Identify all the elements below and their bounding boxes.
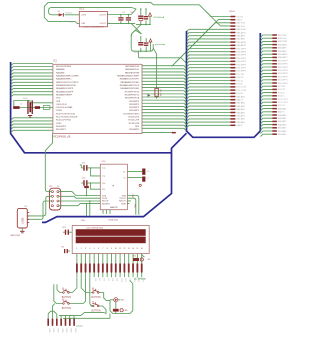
- bus A vertical: [11, 62, 172, 153]
- svg-text:12: 12: [123, 248, 125, 250]
- svg-text:RB5.PGM: RB5.PGM: [236, 29, 245, 31]
- wire bottom rail: [63, 317, 110, 319]
- svg-text:RD7.SPP7: RD7.SPP7: [236, 48, 247, 50]
- svg-text:RA3.AN3: RA3.AN3: [278, 114, 287, 117]
- switch S4: [91, 305, 92, 307]
- svg-text:T1OE: T1OE: [102, 198, 108, 200]
- LED part 2: [113, 309, 119, 312]
- svg-text:RA2.AN2: RA2.AN2: [236, 105, 245, 108]
- wire IC diag row3: [175, 23, 230, 63]
- DC/DC converter DC1: [79, 12, 107, 27]
- svg-text:RB3.AN9: RB3.AN9: [278, 47, 287, 50]
- wire inner U-turn: [49, 7, 52, 14]
- wire cluster B loop: [131, 31, 153, 52]
- svg-text:µC-Display: µC-Display: [134, 278, 147, 281]
- wire to pad row: [48, 311, 57, 318]
- svg-text:OSC2/CLKO/RA6: OSC2/CLKO/RA6: [56, 106, 73, 109]
- svg-text:RD0.SPP0: RD0.SPP0: [236, 71, 247, 73]
- svg-text:RD3.SPP3: RD3.SPP3: [278, 73, 289, 75]
- svg-text:T1IN: T1IN: [102, 195, 107, 197]
- wire R1 vertical: [156, 56, 158, 88]
- svg-text:D10: D10: [120, 279, 122, 282]
- op IC1 box: [53, 64, 142, 133]
- svg-text:RB1.AN10: RB1.AN10: [278, 53, 288, 56]
- svg-text:RB0.AN12: RB0.AN12: [278, 56, 288, 59]
- svg-text:+VIN: +VIN: [81, 15, 86, 17]
- LCD bar 2: [76, 237, 146, 244]
- wire LED loop: [110, 281, 133, 314]
- switch S2: [61, 303, 62, 305]
- wire diode net: [52, 14, 58, 16]
- svg-text:RC1.CCP2: RC1.CCP2: [236, 90, 247, 92]
- svg-text:9: 9: [111, 248, 112, 250]
- svg-text:MCLR/VPP/RE3: MCLR/VPP/RE3: [56, 66, 72, 68]
- svg-text:RD1/SPP1: RD1/SPP1: [129, 110, 140, 112]
- svg-text:R15: R15: [121, 300, 124, 302]
- svg-text:VSS2: VSS2: [56, 123, 62, 125]
- backlight part R16: [133, 258, 139, 261]
- svg-text:PAD12345: PAD12345: [11, 234, 21, 237]
- svg-text:RD4/SPP4: RD4/SPP4: [129, 101, 140, 103]
- svg-text:+VOUT: +VOUT: [99, 15, 107, 17]
- svg-text:GND: GND: [48, 328, 50, 333]
- wire IC2 bottom stubs: [102, 210, 104, 214]
- svg-text:VCC5V: VCC5V: [236, 16, 243, 18]
- svg-text:D7: D7: [107, 279, 109, 281]
- svg-text:R2IN: R2IN: [121, 203, 126, 205]
- LCD module box: [72, 226, 149, 254]
- svg-text:RB6/KBI2/PGC: RB6/KBI2/PGC: [125, 69, 140, 71]
- svg-text:RD7.SPP7: RD7.SPP7: [278, 60, 289, 62]
- svg-text:LED: LED: [124, 310, 128, 312]
- svg-text:RD7/SPP7/P1D: RD7/SPP7/P1D: [125, 91, 140, 93]
- svg-text:V-: V-: [124, 177, 126, 179]
- capacitor C4: [35, 106, 40, 109]
- svg-text:+5V/500mA: +5V/500mA: [153, 16, 165, 19]
- svg-text:RC7.RX: RC7.RX: [236, 74, 244, 76]
- svg-text:C7: C7: [147, 178, 149, 180]
- svg-text:RC4/D-/VM: RC4/D-/VM: [129, 123, 140, 125]
- bus C vertical: [259, 33, 261, 131]
- svg-text:RA3/AN3/VREF+: RA3/AN3/VREF+: [56, 78, 73, 81]
- svg-text:11: 11: [119, 248, 121, 250]
- svg-text:RC0/T1OSO/T13CKI: RC0/T1OSO/T13CKI: [56, 113, 76, 115]
- svg-text:RC5/D+/VP: RC5/D+/VP: [129, 120, 140, 122]
- svg-text:RC5.D+: RC5.D+: [236, 80, 244, 82]
- svg-text:RC6/TX/CK: RC6/TX/CK: [128, 117, 139, 119]
- svg-text:GND: GND: [61, 328, 63, 333]
- svg-text:14: 14: [132, 248, 134, 250]
- capacitor C7: [142, 169, 145, 175]
- svg-text:15: 15: [136, 248, 138, 250]
- svg-text:RA0.AN0: RA0.AN0: [278, 123, 287, 126]
- svg-text:RB2.AN8: RB2.AN8: [236, 38, 245, 41]
- svg-text:DC1: DC1: [79, 8, 84, 11]
- svg-text:RA1.AN1: RA1.AN1: [236, 108, 245, 111]
- svg-text:D4: D4: [94, 279, 96, 281]
- svg-text:RC5.D+: RC5.D+: [278, 92, 286, 94]
- svg-text:RD2.SPP2: RD2.SPP2: [236, 64, 247, 66]
- svg-text:16: 16: [141, 248, 143, 250]
- svg-text:RB6.PGC: RB6.PGC: [278, 38, 287, 40]
- svg-text:D9: D9: [115, 279, 117, 281]
- svg-text:RA0/AN0: RA0/AN0: [56, 68, 65, 71]
- wire X crossing: [131, 23, 141, 34]
- svg-text:T2IN: T2IN: [121, 195, 126, 197]
- svg-text:RD2/SPP2: RD2/SPP2: [129, 107, 140, 109]
- svg-text:13: 13: [128, 248, 130, 250]
- svg-text:RE1.AN6: RE1.AN6: [278, 130, 287, 133]
- wire DC1 outputs: [107, 14, 131, 16]
- net tag: [43, 106, 50, 110]
- svg-text:RC4.D-: RC4.D-: [278, 96, 285, 98]
- svg-text:RD2.SPP2: RD2.SPP2: [278, 76, 289, 78]
- svg-text:jumper: jumper: [75, 325, 83, 328]
- svg-text:RC6.TX: RC6.TX: [278, 89, 286, 91]
- svg-text:-VIN: -VIN: [81, 23, 86, 25]
- svg-text:GND: GND: [65, 328, 67, 333]
- svg-text:TXD: TXD: [131, 194, 133, 198]
- svg-text:RD5.SPP5: RD5.SPP5: [236, 55, 247, 57]
- svg-text:GND: GND: [74, 328, 76, 333]
- svg-text:RC7.RX: RC7.RX: [278, 86, 286, 88]
- svg-text:RE0.AN5: RE0.AN5: [236, 121, 245, 124]
- svg-text:5: 5: [94, 248, 95, 250]
- wire IC2 right pins to C7: [127, 171, 142, 173]
- svg-text:100u: 100u: [126, 19, 130, 21]
- svg-text:RA1/AN1: RA1/AN1: [56, 71, 65, 74]
- LCD bar 1: [76, 229, 146, 236]
- pad circle: [139, 184, 141, 186]
- capacitor C11: [88, 167, 101, 169]
- svg-text:2: 2: [81, 248, 82, 250]
- svg-text:TUSB_B02: TUSB_B02: [108, 220, 119, 222]
- svg-text:RD3/SPP3: RD3/SPP3: [129, 104, 140, 106]
- svg-text:D6: D6: [103, 279, 105, 281]
- wire from IC1 down to header: [45, 133, 52, 191]
- svg-text:RA2/AN2/VREF-/CVREF: RA2/AN2/VREF-/CVREF: [56, 74, 79, 77]
- svg-text:10u: 10u: [147, 171, 150, 173]
- svg-text:RA1.AN1: RA1.AN1: [278, 120, 287, 123]
- net arrow: [148, 94, 151, 97]
- svg-text:R1IN/PU: R1IN/PU: [102, 203, 110, 205]
- svg-text:RD5.SPP5: RD5.SPP5: [278, 67, 289, 69]
- svg-text:RC2.CCP1: RC2.CCP1: [236, 87, 247, 89]
- svg-text:RD4.SPP4: RD4.SPP4: [278, 70, 289, 72]
- svg-text:C3: C3: [20, 104, 22, 106]
- svg-text:RD1.SPP1: RD1.SPP1: [278, 80, 289, 82]
- svg-text:7: 7: [102, 248, 103, 250]
- ground X1: [21, 228, 23, 231]
- svg-text:RB4.AN11: RB4.AN11: [236, 31, 246, 34]
- svg-text:USB: USB: [20, 218, 24, 224]
- wire button network: [57, 284, 61, 292]
- svg-text:RA5/AN4/SS/HLVDIN: RA5/AN4/SS/HLVDIN: [56, 84, 76, 87]
- diode D1: [59, 13, 64, 16]
- wire rail fork to header row4: [206, 12, 230, 26]
- svg-text:R2OUT: R2OUT: [119, 201, 126, 203]
- svg-text:RA3.AN3: RA3.AN3: [236, 102, 245, 105]
- svg-text:RC4.D-: RC4.D-: [236, 84, 243, 86]
- svg-text:RB0/AN12/INT0/SDI: RB0/AN12/INT0/SDI: [121, 87, 140, 90]
- svg-text:BUTTON: BUTTON: [91, 297, 101, 299]
- svg-text:R1 10k: R1 10k: [159, 90, 161, 96]
- svg-text:GND: GND: [57, 328, 59, 333]
- svg-text:GND.1: GND.1: [236, 20, 243, 22]
- wire inner VCC line: [52, 7, 136, 9]
- svg-text:RB2.AN8: RB2.AN8: [278, 50, 287, 53]
- svg-text:RE0.AN5: RE0.AN5: [278, 133, 287, 136]
- svg-text:4k7: 4k7: [148, 259, 151, 261]
- svg-text:S1: S1: [62, 288, 64, 290]
- svg-text:RC0.T1: RC0.T1: [236, 93, 244, 95]
- svg-text:100n: 100n: [134, 52, 138, 54]
- svg-text:RD5/SPP5/P1B: RD5/SPP5/P1B: [125, 98, 140, 100]
- resistor R1: [155, 88, 158, 96]
- svg-text:8: 8: [107, 248, 108, 250]
- ground crystal: [28, 115, 32, 116]
- capacitor C1: [120, 15, 122, 17]
- svg-text:RA5.AN4: RA5.AN4: [278, 107, 287, 110]
- connector JP4 right column pins: [261, 35, 273, 37]
- svg-text:BUTTON: BUTTON: [62, 308, 72, 310]
- wire header right stubs: [59, 191, 61, 193]
- svg-text:MAX232: MAX232: [110, 206, 119, 209]
- wire IC1 left bus wires: [11, 64, 53, 66]
- LCD pins + resistor ladder: [76, 254, 78, 264]
- LCD contrast cap C13: [65, 230, 66, 235]
- svg-text:GND: GND: [70, 328, 72, 333]
- svg-text:GND: GND: [70, 22, 75, 24]
- svg-text:S3: S3: [92, 288, 94, 290]
- wire OSC1 net: [30, 101, 53, 103]
- bus junction lower: [42, 133, 187, 222]
- svg-text:D11: D11: [124, 279, 126, 282]
- svg-text:RC1.CCP2: RC1.CCP2: [278, 102, 289, 104]
- svg-text:VDD: VDD: [56, 98, 61, 100]
- svg-text:RE1/AN6/CK2SPP: RE1/AN6/CK2SPP: [56, 90, 74, 93]
- wire header left loops from USB: [27, 196, 51, 216]
- svg-text:RE1.AN6: RE1.AN6: [236, 118, 245, 121]
- svg-text:R1OUT: R1OUT: [102, 201, 109, 203]
- svg-text:RC6.TX: RC6.TX: [236, 77, 244, 79]
- svg-text:RC2.CCP1: RC2.CCP1: [278, 99, 289, 101]
- svg-text:RD6.SPP6: RD6.SPP6: [278, 64, 289, 66]
- wire IC2 lower-left pins w/ jogs: [61, 192, 100, 196]
- svg-text:3: 3: [85, 248, 86, 250]
- svg-text:RA5.AN4: RA5.AN4: [236, 95, 245, 98]
- wire OSC2 net: [13, 107, 53, 109]
- svg-text:C1-: C1-: [102, 176, 106, 178]
- svg-text:JP6/4: JP6/4: [229, 11, 235, 13]
- op IC2 box: [100, 164, 127, 210]
- wire cluster B drop: [138, 51, 140, 58]
- svg-text:GND: GND: [52, 328, 54, 333]
- svg-text:RD4.SPP4: RD4.SPP4: [236, 58, 247, 60]
- svg-text:T2OUT: T2OUT: [119, 198, 126, 200]
- svg-text:RA4.T0: RA4.T0: [278, 111, 286, 114]
- svg-text:RD0.SPP0: RD0.SPP0: [278, 83, 289, 85]
- wire IC diag row2: [172, 20, 231, 67]
- svg-text:pwr/analog: pwr/analog: [155, 43, 166, 46]
- svg-text:C12: C12: [82, 178, 85, 180]
- svg-text:PIC18F4550_AE: PIC18F4550_AE: [53, 135, 71, 138]
- wire outer loop left+bottom: [44, 2, 79, 23]
- switch S1: [61, 292, 62, 294]
- supply arrow cluster B: [150, 42, 152, 51]
- wire IC2 right elbows down: [127, 196, 138, 215]
- capacitor C8: [140, 36, 142, 42]
- wire cluster A bottom rail: [136, 24, 151, 26]
- capacitor C6: [145, 9, 147, 16]
- svg-text:RE0/AN5/CK1SPP: RE0/AN5/CK1SPP: [56, 87, 74, 90]
- svg-text:RC1/T1OSI/CCP2/UOE: RC1/T1OSI/CCP2/UOE: [56, 117, 78, 119]
- svg-text:JP1: JP1: [49, 186, 52, 188]
- svg-text:C13: C13: [62, 227, 65, 229]
- svg-text:S2: S2: [62, 299, 64, 301]
- svg-text:1N4004: 1N4004: [65, 13, 72, 15]
- svg-text:RA4/T0CKI/C1OUT/RCV: RA4/T0CKI/C1OUT/RCV: [56, 81, 79, 84]
- capacitor C5: [140, 9, 142, 15]
- svg-text:VSS: VSS: [56, 101, 61, 103]
- svg-text:RD0/SPP0: RD0/SPP0: [56, 126, 67, 128]
- svg-text:C2-: C2-: [102, 189, 106, 191]
- svg-text:RB6.PGC: RB6.PGC: [236, 26, 245, 28]
- capacitor C12: [88, 182, 101, 184]
- svg-text:10: 10: [115, 248, 117, 250]
- svg-text:RB3.AN9: RB3.AN9: [236, 35, 245, 38]
- connector JP1: [50, 188, 61, 210]
- svg-text:2: 2: [138, 188, 139, 190]
- svg-text:R16: R16: [133, 256, 136, 258]
- svg-text:RC2/CCP1/P1A: RC2/CCP1/P1A: [56, 119, 71, 122]
- switch S3: [91, 292, 92, 294]
- capacitor C3: [13, 106, 19, 109]
- wire outer loop top: [48, 2, 199, 4]
- svg-text:RB2/AN8/INT2/VMO: RB2/AN8/INT2/VMO: [120, 81, 139, 84]
- jumper R3: [84, 186, 89, 188]
- wire rail to header row1: [199, 5, 230, 17]
- svg-text:RB5/KBI1/PGM: RB5/KBI1/PGM: [125, 72, 140, 74]
- svg-text:DC/DC CONVERTER: DC/DC CONVERTER: [83, 27, 104, 29]
- capacitor C9: [145, 38, 147, 42]
- svg-text:GND.2: GND.2: [236, 125, 243, 127]
- svg-text:RB7.PGD: RB7.PGD: [236, 23, 245, 25]
- svg-text:RA0.AN0: RA0.AN0: [236, 111, 245, 114]
- svg-text:RD0/SPP0: RD0/SPP0: [129, 129, 140, 131]
- svg-text:RE2/AN7/OESPP: RE2/AN7/OESPP: [56, 93, 73, 96]
- wire drops to bus: [86, 204, 88, 216]
- svg-text:RB5.PGM: RB5.PGM: [278, 41, 287, 43]
- svg-text:RA2.AN2: RA2.AN2: [278, 117, 287, 120]
- connector pad row: [47, 319, 49, 326]
- svg-text:VUSB: VUSB: [56, 110, 62, 112]
- svg-text:C11: C11: [82, 163, 85, 165]
- svg-text:6: 6: [98, 248, 99, 250]
- svg-text:RD1.SPP1: RD1.SPP1: [236, 68, 247, 70]
- svg-text:S4: S4: [92, 302, 94, 304]
- svg-text:OSC1/CLKI: OSC1/CLKI: [56, 104, 67, 106]
- svg-text:RB1/AN10/INT1/SCK: RB1/AN10/INT1/SCK: [120, 84, 140, 87]
- svg-text:RD6/SPP6/P1C: RD6/SPP6/P1C: [125, 94, 140, 96]
- svg-text:RB4/AN11/KBI0/CSSPP: RB4/AN11/KBI0/CSSPP: [117, 74, 140, 77]
- LED R15: [114, 298, 118, 302]
- svg-text:RE2.AN7: RE2.AN7: [278, 127, 287, 130]
- capacitor C2: [127, 15, 129, 17]
- connector X1 USB: [17, 208, 27, 228]
- resistor R2 below-left: [64, 249, 65, 253]
- crystal Q1: [27, 100, 28, 114]
- svg-text:RB3/AN9/CCP2/VPO: RB3/AN9/CCP2/VPO: [120, 78, 140, 81]
- svg-text:R2: R2: [62, 247, 64, 249]
- svg-text:8MHz: 8MHz: [23, 98, 28, 100]
- svg-text:D8: D8: [111, 279, 113, 281]
- wire IC1 right bus wires: [142, 66, 186, 68]
- svg-text:-VOUT: -VOUT: [99, 23, 106, 25]
- svg-text:4: 4: [89, 248, 90, 250]
- svg-text:RD3.SPP3: RD3.SPP3: [236, 61, 247, 63]
- svg-text:RB1.AN10: RB1.AN10: [236, 41, 246, 44]
- svg-text:RB0.AN12: RB0.AN12: [236, 44, 246, 47]
- wire IC1 last row w/ pin tick: [142, 132, 172, 134]
- wire diag to rail: [131, 9, 136, 15]
- svg-text:RC7/RX/DT/SDO: RC7/RX/DT/SDO: [123, 113, 139, 115]
- svg-text:RXD: RXD: [133, 204, 135, 209]
- connector JP6 left column pins: [230, 16, 235, 18]
- svg-text:D5: D5: [98, 279, 100, 281]
- svg-text:RB7/KBI3/PGD: RB7/KBI3/PGD: [125, 66, 140, 68]
- svg-text:RB7.PGD: RB7.PGD: [278, 35, 287, 37]
- svg-text:RC0.T1: RC0.T1: [278, 105, 286, 107]
- svg-text:RD1/SPP1: RD1/SPP1: [56, 129, 67, 131]
- svg-text:RD6.SPP6: RD6.SPP6: [236, 52, 247, 54]
- bus B vertical: [187, 31, 261, 137]
- svg-text:1: 1: [76, 248, 77, 250]
- svg-text:RA4.T0: RA4.T0: [236, 99, 244, 102]
- svg-text:RE2.AN7: RE2.AN7: [236, 115, 245, 118]
- +5V supply arrow: [149, 16, 151, 25]
- svg-text:RB4.AN11: RB4.AN11: [278, 43, 288, 46]
